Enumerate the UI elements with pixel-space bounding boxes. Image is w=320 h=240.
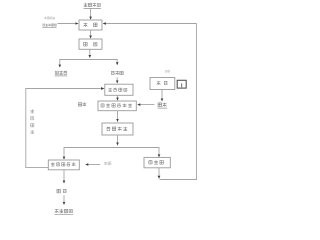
box B3 conditioning bbox=[105, 84, 133, 95]
node enzyme label (left, two lines, underlined) bbox=[42, 17, 56, 28]
wire box7 bottom to recycle with down arrow bbox=[158, 168, 160, 178]
wire box1 to box2 bbox=[90, 30, 92, 38]
box B5 acid precipitation bbox=[102, 123, 133, 135]
wire feed arrow into box1 top bbox=[90, 8, 92, 19]
box B4 high-pressure cook (wide) bbox=[98, 101, 136, 111]
wire wastewater collection line bbox=[26, 89, 101, 168]
node side input label bbox=[104, 162, 111, 165]
wire box2 down with mid arrow bbox=[89, 49, 91, 58]
box B1 mixing bbox=[79, 20, 102, 30]
box B7 recovery tower bbox=[144, 157, 170, 167]
node product label under dryer arrow (underlined) bbox=[158, 103, 168, 108]
wire box6 down arrow bbox=[63, 170, 65, 184]
wire recycle vertical right side bbox=[160, 24, 197, 180]
wire branch line under box2 bbox=[60, 60, 117, 68]
box B6 wastewater station bbox=[48, 160, 79, 170]
wire recycle return into box1 right bbox=[103, 23, 197, 25]
node wastewater vertical label bbox=[30, 109, 34, 134]
wire branch2 line bbox=[64, 148, 159, 160]
wire hydrolysate into box3 bbox=[116, 77, 118, 83]
node mid label bbox=[57, 189, 67, 193]
node gas label above dryer bbox=[165, 70, 170, 72]
box B2 filter bbox=[79, 39, 102, 49]
node hydrolysate label (right branch) bbox=[111, 71, 123, 75]
node discharge label (underlined) bbox=[54, 209, 73, 214]
node supernatant label (underlined) bbox=[55, 71, 68, 76]
wire enzyme arrow into box1 left bbox=[58, 23, 79, 25]
wire box3 to box4 bbox=[117, 95, 119, 100]
wire box4 to box5 bbox=[117, 111, 119, 122]
node mother-liquor label (left of box4) bbox=[78, 102, 86, 106]
wire to discharge bbox=[63, 195, 65, 205]
wire hot stream into box4 right bbox=[138, 104, 155, 106]
wire side input into box6 right bbox=[86, 164, 101, 166]
wire dryer down arrow to product bbox=[161, 90, 163, 102]
box B8 dryer bbox=[150, 78, 175, 90]
node raw-material label (top, underlined) bbox=[84, 3, 101, 8]
wire box5 down to branch2 bbox=[117, 135, 119, 145]
box B9 small symbol box bbox=[177, 80, 186, 88]
